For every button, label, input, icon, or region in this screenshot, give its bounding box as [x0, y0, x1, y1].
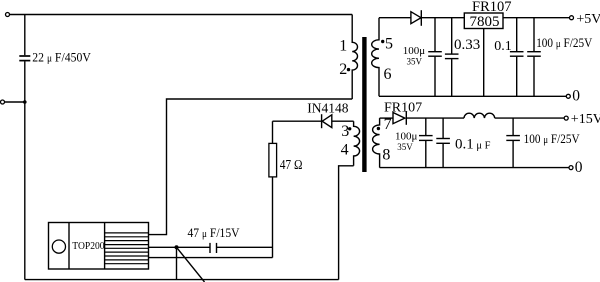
wire +15V rail right — [495, 117, 565, 119]
node dot pin7 — [377, 127, 380, 130]
capacitor C9 47uF/15V — [209, 243, 211, 253]
inductor L1 — [464, 113, 495, 118]
wire resistor branch — [272, 121, 274, 257]
terminal 0 (+15V section) — [569, 166, 573, 170]
svg-text:6: 6 — [384, 66, 392, 83]
capacitor C8 100uF/25V — [512, 118, 514, 135]
wire feedback diode left — [273, 120, 322, 122]
transformer feedback winding 3-4 — [354, 121, 360, 166]
transformer core — [362, 37, 366, 172]
svg-text:3: 3 — [341, 123, 349, 140]
wire lower pin — [149, 257, 273, 259]
svg-text:2: 2 — [339, 61, 347, 78]
capacitor C2 100u/35V — [434, 18, 436, 52]
transformer secondary winding 5-6 — [372, 18, 379, 97]
svg-text:47 Ω: 47 Ω — [280, 158, 303, 173]
node dot pin2 — [347, 68, 350, 71]
wire +5V rail left — [379, 17, 411, 19]
regulator U1 7805 — [464, 13, 503, 29]
IC heatsink fins — [105, 233, 149, 264]
wire bottom rail — [25, 279, 339, 281]
wire source to bottom rail — [176, 247, 178, 279]
svg-text:+15V: +15V — [571, 112, 600, 127]
wire +15V rail left — [380, 117, 393, 119]
svg-text:TOP200: TOP200 — [72, 240, 105, 252]
svg-text:100μ: 100μ — [395, 131, 418, 143]
svg-text:35V: 35V — [407, 57, 423, 67]
capacitor C1 22uF/450V — [19, 55, 30, 57]
wire 0V rail (+5V section) — [379, 95, 566, 97]
svg-text:IN4148: IN4148 — [307, 100, 348, 115]
svg-text:7: 7 — [384, 116, 392, 133]
svg-text:47 μ F/15V: 47 μ F/15V — [188, 226, 240, 240]
transformer T primary winding 1-2 — [352, 15, 357, 100]
svg-text:100 μ F/25V: 100 μ F/25V — [524, 132, 580, 146]
wire 0V rail (+15V section) — [380, 167, 569, 169]
terminal 0 (+5V section) — [566, 94, 570, 98]
svg-text:35V: 35V — [397, 142, 413, 152]
capacitor C6 100u/35V — [425, 118, 427, 135]
terminal T1 (AC input top) — [6, 13, 10, 17]
svg-text:0: 0 — [575, 159, 583, 176]
diode D2 FR107 — [393, 113, 405, 124]
terminal +15V — [564, 116, 568, 120]
wire left bus lower lead — [24, 61, 26, 279]
diode D3 IN4148 — [321, 114, 323, 128]
wire 7805 ground lead — [483, 29, 485, 97]
node junction T2-bus — [23, 100, 27, 104]
svg-text:+5V: +5V — [576, 12, 600, 27]
wire T2 to bus — [5, 101, 25, 103]
capacitor C7 0.1uF — [442, 118, 444, 138]
wire +5V rail right — [503, 17, 570, 19]
terminal T2 (AC input bottom) — [1, 100, 5, 104]
resistor R1 47ohm — [269, 143, 277, 177]
wire feedback diode right — [332, 120, 354, 122]
svg-text:22 μ F/450V: 22 μ F/450V — [32, 50, 91, 64]
terminal +5V — [570, 16, 574, 20]
wire source pin — [149, 246, 211, 248]
svg-text:0.33: 0.33 — [454, 37, 480, 53]
svg-text:FR107: FR107 — [472, 0, 512, 15]
wire top rail — [10, 14, 353, 16]
transformer secondary winding 7-8 — [373, 118, 380, 168]
IC mounting hole — [52, 240, 65, 253]
svg-text:100μ: 100μ — [403, 45, 426, 57]
svg-text:8: 8 — [382, 146, 390, 163]
capacitor C3 0.33 — [451, 18, 453, 54]
wire winding4 return — [339, 166, 354, 280]
IC U2 TOP200 body — [49, 223, 149, 270]
capacitor C5 100uF/25V — [533, 18, 535, 52]
svg-text:5: 5 — [385, 36, 393, 53]
svg-text:0: 0 — [572, 88, 580, 105]
svg-text:100 μ F/25V: 100 μ F/25V — [536, 36, 592, 50]
svg-text:1: 1 — [339, 38, 347, 55]
svg-text:7805: 7805 — [470, 14, 500, 30]
svg-text:4: 4 — [341, 142, 349, 159]
node dot pin3 — [348, 127, 351, 130]
wire primary return — [149, 99, 353, 235]
node dot pin5 — [381, 40, 384, 43]
wire left bus upper lead — [24, 15, 26, 56]
wire +15V rail mid — [406, 117, 464, 119]
wire diagonal lead — [177, 247, 205, 282]
svg-text:0.1: 0.1 — [494, 39, 512, 54]
diode D1 FR107 — [411, 12, 421, 24]
svg-text:FR107: FR107 — [384, 100, 422, 115]
capacitor C4 0.1 — [516, 18, 518, 52]
wire +5V rail mid — [421, 17, 464, 19]
node junction source — [175, 245, 179, 249]
